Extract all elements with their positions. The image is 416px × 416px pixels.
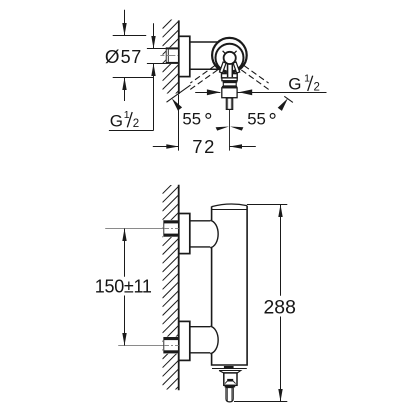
svg-text:72: 72 bbox=[192, 136, 216, 157]
svg-text:2: 2 bbox=[133, 118, 139, 130]
svg-text:55: 55 bbox=[247, 110, 266, 129]
svg-text:57: 57 bbox=[121, 47, 142, 67]
svg-text:2: 2 bbox=[314, 81, 320, 93]
svg-text:288: 288 bbox=[264, 297, 296, 319]
svg-text:G: G bbox=[288, 74, 301, 93]
svg-text:1: 1 bbox=[304, 72, 310, 84]
svg-text:1: 1 bbox=[124, 109, 130, 121]
svg-text:150±11: 150±11 bbox=[95, 277, 152, 297]
svg-text:55: 55 bbox=[182, 110, 201, 129]
svg-text:G: G bbox=[110, 111, 123, 130]
svg-text:Ø: Ø bbox=[105, 46, 120, 67]
